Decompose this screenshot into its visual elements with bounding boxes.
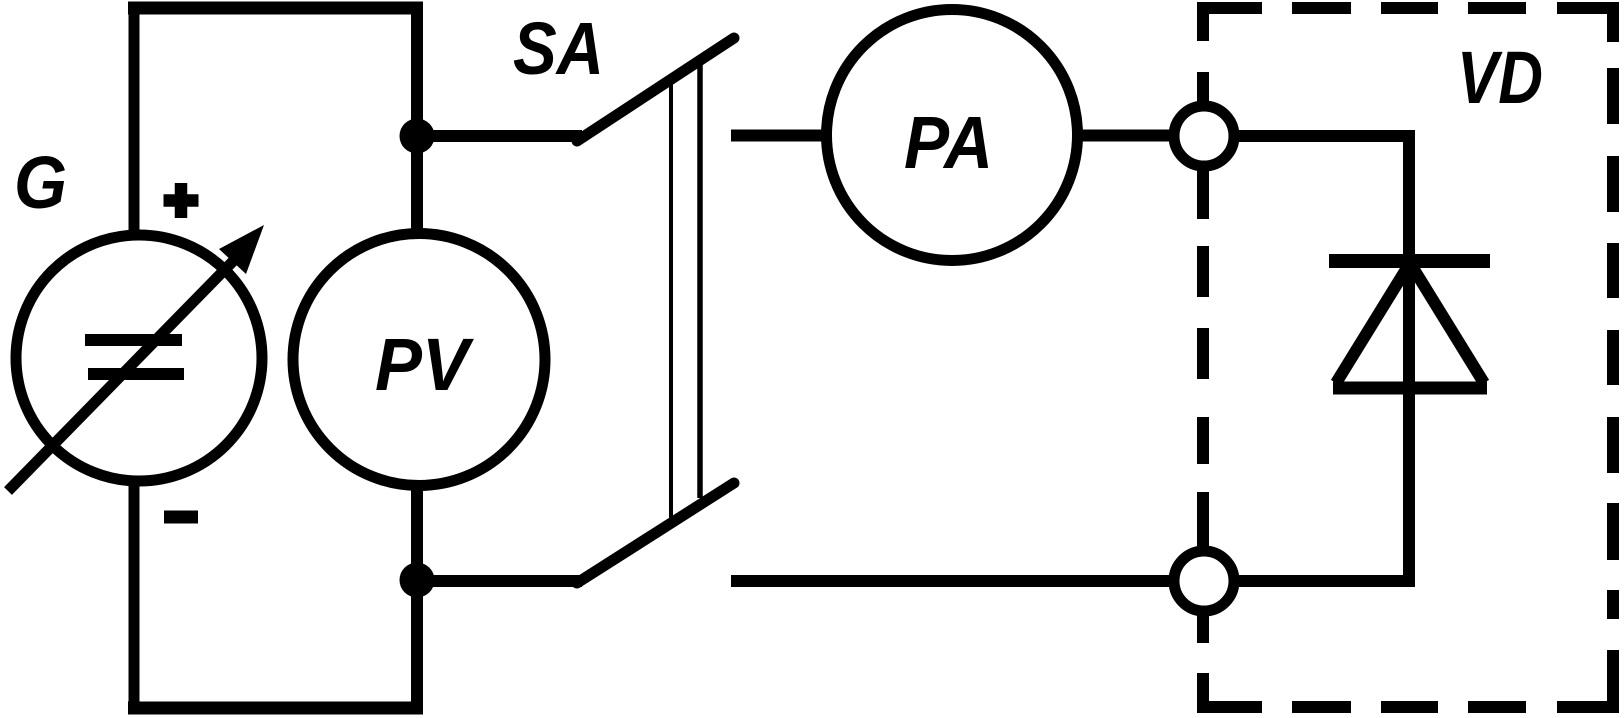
G arrow shaft bbox=[8, 250, 244, 491]
dashed box right dash 7 bbox=[1607, 503, 1619, 560]
dashed box left dash 5 bbox=[1197, 417, 1209, 464]
switch SA blade top bbox=[577, 38, 734, 141]
switch coupling bar line 1 bbox=[669, 80, 673, 522]
wire switch to PA bbox=[731, 130, 824, 142]
dashed box left dash 3 bbox=[1197, 246, 1209, 297]
wire node to switch bottom bbox=[417, 575, 582, 587]
wire top terminal to diode corner bbox=[1238, 130, 1415, 142]
switch SA blade bottom bbox=[577, 483, 734, 583]
generator G circle bbox=[16, 235, 262, 481]
G arrowhead bbox=[219, 225, 264, 274]
svg-text:VD: VD bbox=[1457, 36, 1543, 119]
svg-text:SA: SA bbox=[513, 7, 604, 90]
switch coupling bar line 2 bbox=[697, 61, 703, 498]
wire PV branch vertical upper bbox=[411, 2, 423, 236]
dashed box top-left corner dash bbox=[1203, 8, 1262, 41]
wire bottom switch to bottom terminal bbox=[731, 575, 1170, 587]
dashed box right dash 5 bbox=[1607, 330, 1619, 385]
terminal circle bottom bbox=[1174, 551, 1234, 611]
plus sign bbox=[164, 183, 199, 218]
dashed box right dash 6 bbox=[1607, 417, 1619, 473]
dashed box bottom-right corner dash bbox=[1557, 650, 1613, 707]
dashed box top dash 4 bbox=[1468, 2, 1526, 14]
G internal bar lower bbox=[88, 368, 184, 380]
terminal circle top bbox=[1174, 106, 1234, 166]
dashed box bottom dash 3 bbox=[1381, 701, 1438, 713]
dashed box right dash 8 bbox=[1607, 590, 1619, 619]
dashed box right dash 4 bbox=[1607, 243, 1619, 298]
dashed box right dash 2 bbox=[1607, 68, 1619, 124]
wire node to switch top bbox=[417, 130, 582, 142]
dashed box left stub above bottom terminal bbox=[1197, 492, 1209, 547]
wire left vertical upper (to G top) bbox=[129, 2, 140, 234]
dashed box bottom dash 2 bbox=[1468, 701, 1526, 713]
dashed box left dash 4 bbox=[1197, 328, 1209, 379]
minus sign bbox=[164, 511, 198, 524]
voltmeter PV circle bbox=[293, 234, 545, 486]
wire diode vertical bbox=[1403, 130, 1415, 587]
dashed box bottom dash 4 bbox=[1292, 701, 1351, 713]
node junction dot top bbox=[400, 119, 435, 154]
dashed box right dash 3 bbox=[1607, 156, 1619, 212]
dashed box left stub below bottom terminal bbox=[1197, 615, 1209, 643]
dashed box top dash 3 bbox=[1381, 2, 1438, 14]
wire diode bottom corner to bottom terminal bbox=[1238, 575, 1415, 587]
node junction dot bottom bbox=[400, 563, 435, 598]
ammeter PA circle bbox=[827, 10, 1078, 261]
svg-text:PV: PV bbox=[375, 323, 474, 406]
wire PA to top terminal bbox=[1079, 130, 1170, 142]
wire PV branch vertical lower bbox=[411, 482, 423, 713]
dashed box top dash 2 bbox=[1292, 2, 1351, 14]
svg-text:G: G bbox=[14, 141, 67, 224]
dashed box left stub below top terminal bbox=[1197, 170, 1209, 219]
dashed box bottom-left corner dash bbox=[1203, 673, 1262, 707]
wire bottom of source loop bbox=[128, 702, 423, 715]
G internal bar upper bbox=[85, 334, 182, 346]
wire left vertical lower (G bottom to bottom wire) bbox=[129, 483, 140, 713]
diode VD cathode bar bbox=[1329, 254, 1490, 268]
diode VD triangle bbox=[1333, 382, 1487, 395]
svg-text:PA: PA bbox=[904, 101, 993, 184]
dashed box left dash above top terminal bbox=[1197, 72, 1209, 102]
wire top of source loop bbox=[128, 2, 423, 15]
dashed box top-right corner dash bbox=[1557, 8, 1613, 42]
